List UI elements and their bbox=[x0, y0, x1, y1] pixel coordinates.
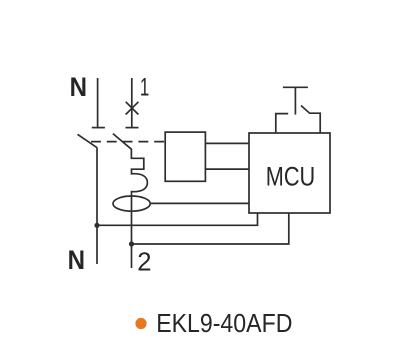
wire N vertical bbox=[96, 147, 98, 264]
svg-text:1: 1 bbox=[140, 74, 149, 101]
test button SB bbox=[276, 87, 320, 133]
caption bullet bbox=[135, 318, 146, 329]
terminal 1 incoming wire bbox=[126, 78, 139, 128]
wire MCU pin to line 2 bbox=[132, 213, 289, 244]
break mark X on line 1 bbox=[126, 102, 139, 115]
svg-text:EKL9-40AFD: EKL9-40AFD bbox=[156, 308, 292, 338]
svg-text:N: N bbox=[68, 245, 85, 275]
junction on line 2 bbox=[129, 241, 134, 246]
wire sensor to MCU (upper) bbox=[205, 142, 249, 144]
switch contact S1 (N pole, open blade) bbox=[78, 134, 97, 147]
wire MCU pin to N line bbox=[97, 213, 258, 225]
MCU U1 bbox=[249, 133, 330, 213]
current transformer CT (arc sensing coil) bbox=[113, 196, 150, 211]
switch contact S2 (line pole, open blade) bbox=[113, 134, 131, 150]
junction on N line bbox=[94, 223, 99, 228]
terminal N incoming wire bbox=[92, 78, 105, 128]
mechanical linkage (dashed) bbox=[91, 141, 165, 143]
wire CT output to MCU bbox=[150, 202, 249, 204]
sensor module box bbox=[165, 132, 205, 181]
svg-text:2: 2 bbox=[137, 249, 151, 277]
overcurrent release (bimetal + coil) and wire 2 vertical bbox=[131, 149, 147, 268]
svg-text:N: N bbox=[70, 72, 87, 102]
svg-text:MCU: MCU bbox=[266, 161, 315, 191]
wire sensor to MCU (lower) bbox=[205, 168, 249, 170]
